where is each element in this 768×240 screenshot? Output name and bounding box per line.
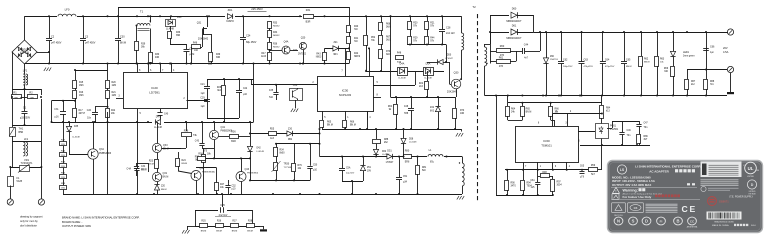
svg-text:BN.M: BN.M bbox=[141, 170, 147, 172]
svg-text:D30: D30 bbox=[177, 16, 182, 19]
svg-text:C29: C29 bbox=[200, 98, 205, 100]
svg-text:Q41: Q41 bbox=[221, 126, 226, 129]
svg-text:225 450V: 225 450V bbox=[251, 7, 263, 11]
svg-text:R22: R22 bbox=[111, 110, 116, 112]
svg-text:1N4753: 1N4753 bbox=[550, 59, 558, 61]
svg-text:B5R: B5R bbox=[19, 131, 24, 134]
svg-text:BRAND NAME: LI SHIN INTERNATIO: BRAND NAME: LI SHIN INTERNATIONAL ENTERP… bbox=[62, 216, 140, 220]
svg-text:C63: C63 bbox=[584, 59, 589, 62]
svg-text:PMBS3904: PMBS3904 bbox=[247, 172, 259, 174]
svg-text:R42: R42 bbox=[354, 53, 359, 55]
svg-text:LED1: LED1 bbox=[683, 51, 690, 54]
svg-text:BN.M: BN.M bbox=[644, 62, 650, 64]
svg-text:C35: C35 bbox=[269, 90, 274, 92]
svg-text:D35: D35 bbox=[74, 126, 79, 128]
svg-text:LT0547: LT0547 bbox=[386, 162, 394, 164]
svg-text:R43: R43 bbox=[316, 54, 321, 56]
svg-text:BN.M: BN.M bbox=[163, 176, 169, 178]
svg-text:UL: UL bbox=[748, 166, 754, 171]
svg-text:C24: C24 bbox=[246, 35, 251, 38]
svg-text:R20: R20 bbox=[413, 23, 418, 25]
svg-text:R46: R46 bbox=[193, 43, 198, 45]
svg-text:TVR10471: TVR10471 bbox=[21, 162, 34, 165]
svg-text:Q43: Q43 bbox=[245, 168, 250, 171]
svg-text:30R: 30R bbox=[216, 57, 221, 59]
svg-text:R44: R44 bbox=[430, 38, 435, 40]
svg-text:R65: R65 bbox=[526, 109, 531, 111]
svg-text:R35: R35 bbox=[201, 221, 206, 223]
svg-text:Q31: Q31 bbox=[197, 22, 202, 25]
svg-text:Q34: Q34 bbox=[99, 148, 104, 151]
svg-text:R41: R41 bbox=[354, 38, 359, 40]
svg-text:8V2: 8V2 bbox=[430, 111, 435, 113]
svg-text:R88: R88 bbox=[384, 139, 389, 141]
svg-text:LL4148: LL4148 bbox=[409, 142, 417, 144]
svg-text:C51: C51 bbox=[403, 176, 408, 178]
svg-text:R60: R60 bbox=[500, 45, 505, 48]
svg-text:R29: R29 bbox=[413, 38, 418, 40]
svg-text:R21: R21 bbox=[430, 23, 435, 25]
svg-text:C62: C62 bbox=[563, 59, 568, 62]
svg-text:µ47 450V: µ47 450V bbox=[85, 42, 96, 45]
svg-text:LL4148: LL4148 bbox=[398, 78, 406, 80]
svg-text:D6A: D6A bbox=[426, 63, 431, 66]
svg-text:LI SHIN INTERNATIONAL ENTERPRI: LI SHIN INTERNATIONAL ENTERPRISE CORP. bbox=[635, 164, 701, 168]
svg-text:C30: C30 bbox=[120, 36, 125, 39]
svg-text:R30: R30 bbox=[155, 54, 160, 56]
svg-text:R22: R22 bbox=[419, 83, 424, 85]
svg-text:C52: C52 bbox=[232, 185, 237, 187]
svg-text:For Indoor Use Only: For Indoor Use Only bbox=[623, 195, 652, 199]
svg-text:C61: C61 bbox=[530, 180, 535, 182]
svg-text:R84: R84 bbox=[606, 108, 611, 110]
svg-text:BN.M: BN.M bbox=[148, 164, 154, 166]
svg-text:34T0: 34T0 bbox=[511, 186, 517, 188]
svg-text:D50: D50 bbox=[447, 55, 452, 57]
svg-text:C65: C65 bbox=[580, 166, 585, 168]
svg-text:ER8: ER8 bbox=[405, 162, 410, 164]
svg-text:68µ 450V: 68µ 450V bbox=[246, 41, 257, 44]
svg-text:20V: 20V bbox=[723, 46, 728, 50]
svg-text:31SPO: 31SPO bbox=[226, 20, 234, 23]
svg-text:8k00: 8k00 bbox=[280, 153, 286, 155]
svg-text:C66: C66 bbox=[710, 46, 715, 49]
svg-text:OUTPUT: 20V 4.5A 90W MA: OUTPUT: 20V 4.5A 90W MAX bbox=[612, 183, 651, 187]
svg-text:TR30: TR30 bbox=[284, 164, 290, 166]
svg-text:R59: R59 bbox=[591, 165, 596, 167]
svg-text:Z21: Z21 bbox=[333, 41, 338, 44]
svg-text:BN.M: BN.M bbox=[350, 125, 356, 127]
svg-text:BN.M: BN.M bbox=[182, 163, 188, 165]
svg-text:470µ/25V: 470µ/25V bbox=[584, 66, 594, 68]
svg-text:KBP208: KBP208 bbox=[20, 52, 29, 55]
svg-text:R80: R80 bbox=[405, 150, 410, 153]
svg-text:R16: R16 bbox=[79, 92, 84, 94]
svg-text:R39: R39 bbox=[141, 44, 146, 46]
svg-text:R70: R70 bbox=[460, 110, 465, 112]
svg-text:Q31: Q31 bbox=[163, 172, 168, 175]
svg-text:C64: C64 bbox=[605, 59, 610, 62]
svg-text:160µ/25V: 160µ/25V bbox=[563, 66, 573, 68]
svg-text:R31: R31 bbox=[306, 9, 311, 12]
svg-text:R63: R63 bbox=[660, 59, 665, 61]
svg-text:T2: T2 bbox=[472, 5, 476, 9]
svg-text:Warning:: Warning: bbox=[623, 188, 638, 192]
svg-text:2n2 1kV: 2n2 1kV bbox=[446, 32, 455, 35]
svg-text:4.5A: 4.5A bbox=[723, 50, 729, 54]
svg-text:IC60: IC60 bbox=[543, 139, 550, 143]
svg-text:BN.M: BN.M bbox=[526, 112, 532, 114]
svg-text:R34: R34 bbox=[280, 150, 285, 152]
svg-text:N0552: N0552 bbox=[273, 47, 280, 49]
svg-text:B2R: B2R bbox=[231, 141, 236, 143]
svg-text:1M0: 1M0 bbox=[112, 95, 117, 97]
svg-text:TSM101: TSM101 bbox=[541, 144, 552, 148]
svg-text:D51: D51 bbox=[387, 150, 392, 153]
svg-text:C5A: C5A bbox=[346, 166, 351, 169]
svg-text:R81: R81 bbox=[422, 167, 427, 169]
svg-text:C34: C34 bbox=[141, 166, 146, 168]
svg-text:N003: N003 bbox=[316, 57, 322, 59]
svg-text:C65: C65 bbox=[626, 59, 631, 62]
svg-text:R62: R62 bbox=[644, 59, 649, 61]
svg-text:BN.M: BN.M bbox=[201, 231, 207, 233]
svg-text:LF1: LF1 bbox=[24, 138, 29, 141]
svg-text:2SK2842: 2SK2842 bbox=[198, 38, 209, 41]
svg-text:C: C bbox=[682, 204, 688, 214]
svg-text:R64: R64 bbox=[388, 106, 393, 108]
svg-text:R98: R98 bbox=[542, 172, 547, 174]
svg-text:9R1: 9R1 bbox=[333, 54, 338, 56]
svg-text:R2: R2 bbox=[29, 91, 33, 95]
svg-text:N: N bbox=[617, 219, 620, 224]
svg-text:9B2: 9B2 bbox=[288, 139, 293, 141]
svg-text:IC20: IC20 bbox=[151, 86, 158, 90]
svg-text:R1: R1 bbox=[13, 91, 17, 95]
svg-text:R67: R67 bbox=[691, 81, 696, 83]
svg-text:R68: R68 bbox=[710, 81, 715, 83]
svg-text:BN.M: BN.M bbox=[232, 231, 238, 233]
svg-text:C1: C1 bbox=[23, 106, 27, 110]
svg-text:PMBS3906A: PMBS3906A bbox=[202, 170, 215, 173]
svg-text:BN.M: BN.M bbox=[327, 125, 333, 127]
svg-text:LS: LS bbox=[620, 168, 625, 172]
svg-text:LTS347: LTS347 bbox=[445, 58, 453, 60]
svg-text:R94: R94 bbox=[527, 183, 532, 185]
svg-text:GB8071: GB8071 bbox=[719, 199, 729, 203]
svg-text:BN.M: BN.M bbox=[626, 66, 632, 68]
svg-text:R65: R65 bbox=[327, 122, 332, 124]
svg-text:3004: 3004 bbox=[557, 185, 563, 187]
svg-text:R36: R36 bbox=[217, 221, 222, 223]
svg-text:R24: R24 bbox=[182, 160, 187, 162]
svg-text:C22: C22 bbox=[243, 88, 248, 90]
svg-text:9NA0903504 03090: 9NA0903504 03090 bbox=[714, 220, 734, 223]
svg-text:40R: 40R bbox=[155, 57, 160, 59]
svg-text:R17: R17 bbox=[79, 110, 84, 112]
svg-text:1k43: 1k43 bbox=[261, 56, 267, 58]
svg-text:87µ: 87µ bbox=[430, 161, 435, 164]
svg-text:R20: R20 bbox=[112, 82, 117, 84]
svg-text:C46: C46 bbox=[627, 130, 632, 132]
svg-text:47R: 47R bbox=[499, 66, 504, 68]
svg-text:36R: 36R bbox=[176, 35, 181, 37]
svg-text:LL4148: LL4148 bbox=[257, 151, 265, 153]
svg-text:NRF9: NRF9 bbox=[354, 56, 361, 58]
svg-text:5A35: 5A35 bbox=[17, 180, 23, 183]
svg-text:PS2561: PS2561 bbox=[610, 129, 619, 131]
svg-text:C20: C20 bbox=[87, 110, 92, 112]
svg-text:BN.M: BN.M bbox=[120, 42, 126, 45]
svg-text:R38: R38 bbox=[198, 154, 203, 156]
svg-text:R79: R79 bbox=[298, 165, 303, 167]
svg-text:R4-0: R4-0 bbox=[751, 225, 757, 227]
svg-text:1M6: 1M6 bbox=[79, 95, 84, 97]
svg-text:R86: R86 bbox=[644, 136, 649, 138]
svg-text:4R7-H: 4R7-H bbox=[79, 113, 86, 115]
svg-text:3kT: 3kT bbox=[644, 139, 648, 141]
svg-text:AC ADAPTER: AC ADAPTER bbox=[649, 169, 669, 173]
svg-text:R66: R66 bbox=[350, 122, 355, 124]
svg-text:GS: GS bbox=[634, 206, 638, 210]
svg-text:Q33: Q33 bbox=[163, 144, 168, 147]
svg-text:LISTED: LISTED bbox=[747, 176, 755, 178]
svg-text:R23: R23 bbox=[149, 161, 154, 163]
svg-text:LL4148: LL4148 bbox=[72, 137, 80, 139]
svg-text:LF0: LF0 bbox=[65, 8, 70, 12]
svg-text:U30: U30 bbox=[293, 84, 298, 87]
svg-text:MADE IN CHINA: MADE IN CHINA bbox=[712, 224, 729, 227]
svg-text:D60: D60 bbox=[512, 8, 517, 11]
svg-text:B: B bbox=[676, 219, 679, 224]
svg-text:D61: D61 bbox=[512, 25, 517, 28]
svg-text:ITE E08: ITE E08 bbox=[749, 194, 756, 196]
svg-text:D47: D47 bbox=[156, 116, 161, 119]
svg-text:D58: D58 bbox=[409, 139, 414, 141]
svg-text:µT9: µT9 bbox=[580, 177, 585, 179]
svg-text:LF1: LF1 bbox=[23, 69, 28, 73]
svg-text:3mm green: 3mm green bbox=[683, 55, 695, 58]
svg-text:D62: D62 bbox=[382, 151, 387, 153]
svg-text:PC61: PC61 bbox=[610, 125, 617, 128]
svg-text:R69: R69 bbox=[664, 68, 669, 70]
svg-text:R36: R36 bbox=[176, 32, 181, 34]
svg-text:Q20: Q20 bbox=[301, 37, 306, 40]
svg-text:2N7002: 2N7002 bbox=[298, 54, 307, 56]
svg-text:R56: R56 bbox=[231, 132, 236, 134]
svg-text:D: D bbox=[751, 183, 754, 187]
svg-text:R37: R37 bbox=[232, 221, 237, 223]
svg-text:BN.M: BN.M bbox=[247, 231, 253, 233]
svg-text:LL4148: LL4148 bbox=[424, 78, 432, 80]
svg-text:R64: R64 bbox=[511, 109, 516, 111]
svg-text:1M0: 1M0 bbox=[112, 85, 117, 87]
svg-text:C47: C47 bbox=[644, 123, 649, 125]
svg-text:don't distribute: don't distribute bbox=[20, 224, 37, 228]
svg-text:C50: C50 bbox=[313, 164, 318, 166]
svg-text:IC30: IC30 bbox=[342, 89, 349, 93]
svg-text:NCP1203: NCP1203 bbox=[339, 93, 352, 97]
svg-text:Q30: Q30 bbox=[454, 72, 459, 75]
svg-text:B3R: B3R bbox=[306, 21, 311, 24]
svg-text:LL4148: LL4148 bbox=[154, 127, 162, 129]
svg-text:470µ/25V: 470µ/25V bbox=[605, 66, 615, 68]
svg-text:µ47 450V: µ47 450V bbox=[51, 42, 62, 45]
svg-text:D: D bbox=[645, 219, 648, 224]
svg-text:BN.M: BN.M bbox=[161, 189, 167, 191]
svg-text:MBR20100CT: MBR20100CT bbox=[506, 20, 522, 23]
svg-text:C31: C31 bbox=[54, 109, 59, 111]
svg-text:R36: R36 bbox=[273, 44, 278, 46]
svg-text:FI: FI bbox=[660, 220, 663, 224]
svg-text:R52: R52 bbox=[371, 37, 376, 39]
svg-text:N0552: N0552 bbox=[273, 35, 280, 37]
svg-text:N0552: N0552 bbox=[273, 26, 280, 28]
svg-text:C48: C48 bbox=[404, 106, 409, 108]
svg-text:ZD1: ZD1 bbox=[228, 9, 233, 12]
svg-text:C44: C44 bbox=[524, 44, 529, 47]
svg-text:C26: C26 bbox=[220, 204, 225, 207]
svg-text:R97: R97 bbox=[557, 182, 562, 184]
svg-text:only for mon by: only for mon by bbox=[20, 219, 38, 223]
svg-text:Q4A: Q4A bbox=[284, 41, 289, 44]
svg-text:R61: R61 bbox=[499, 56, 504, 59]
svg-text:D4A: D4A bbox=[400, 63, 405, 66]
svg-text:C28: C28 bbox=[446, 27, 451, 30]
svg-text:S: S bbox=[632, 219, 635, 224]
svg-text:R48: R48 bbox=[397, 53, 402, 55]
svg-text:R47: R47 bbox=[261, 53, 266, 55]
svg-text:R33: R33 bbox=[273, 23, 278, 25]
svg-text:R38: R38 bbox=[248, 221, 253, 223]
svg-text:ARGENTINA: ARGENTINA bbox=[687, 226, 698, 229]
svg-text:LD7591: LD7591 bbox=[149, 91, 160, 95]
svg-text:C21: C21 bbox=[200, 84, 205, 86]
svg-text:I.T.E. POWER SUPPLY: I.T.E. POWER SUPPLY bbox=[729, 196, 754, 198]
svg-text:19V: 19V bbox=[367, 170, 372, 172]
svg-text:D42: D42 bbox=[257, 148, 262, 150]
svg-text:!: ! bbox=[615, 190, 616, 194]
svg-text:drawing by cappont: drawing by cappont bbox=[20, 215, 43, 219]
svg-text:C43: C43 bbox=[195, 141, 200, 143]
svg-text:µ33 250V: µ33 250V bbox=[20, 117, 31, 120]
svg-text:C40: C40 bbox=[164, 114, 169, 116]
svg-text:OUTPUT POWER: 90W: OUTPUT POWER: 90W bbox=[62, 224, 91, 228]
svg-text:MBR20100CT: MBR20100CT bbox=[506, 37, 522, 40]
svg-text:R28: R28 bbox=[217, 87, 222, 89]
svg-text:C4A: C4A bbox=[127, 167, 132, 170]
svg-text:R90: R90 bbox=[511, 183, 516, 185]
svg-text:H38: H38 bbox=[404, 113, 409, 115]
svg-text:BOARD NAME: -: BOARD NAME: - bbox=[62, 220, 83, 224]
svg-text:T1: T1 bbox=[140, 10, 144, 14]
svg-text:10R: 10R bbox=[460, 113, 465, 115]
svg-text:R21: R21 bbox=[112, 92, 117, 94]
svg-text:TY7108: TY7108 bbox=[284, 167, 292, 169]
svg-text:1M6: 1M6 bbox=[79, 85, 84, 87]
svg-text:R15: R15 bbox=[79, 82, 84, 84]
svg-text:22µ 50V: 22µ 50V bbox=[346, 173, 355, 175]
svg-text:R47: R47 bbox=[220, 184, 225, 186]
svg-text:R34: R34 bbox=[273, 32, 278, 34]
svg-text:R40: R40 bbox=[354, 26, 359, 28]
svg-text:R55: R55 bbox=[270, 129, 275, 131]
svg-text:BN.M: BN.M bbox=[216, 231, 222, 233]
svg-text:R39: R39 bbox=[216, 54, 221, 56]
svg-text:PMBS3906: PMBS3906 bbox=[99, 152, 112, 155]
svg-text:E: E bbox=[690, 204, 696, 214]
